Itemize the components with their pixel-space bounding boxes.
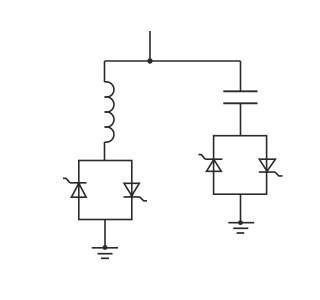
diode D1 cathode bar [70, 182, 87, 184]
diode D4 bar tail [275, 172, 283, 176]
capacitor C1 bottom plate [223, 102, 257, 104]
diode D3 cathode bar [205, 158, 222, 160]
wire capacitor to box [240, 103, 242, 135]
wire right drop [240, 61, 242, 91]
ground left [92, 248, 118, 258]
wire box to ground right [240, 194, 242, 223]
diode D1 bar tail [63, 178, 70, 183]
diode D2 triangle [124, 183, 139, 195]
node dot at left ground [103, 245, 108, 250]
node dot at right ground [238, 220, 243, 225]
wire left drop [104, 61, 106, 82]
diode D2 bar tail [140, 197, 147, 201]
inductor L1 [105, 82, 114, 142]
ground right [228, 223, 254, 233]
node junction dot [147, 58, 152, 63]
wire inductor to box [104, 142, 106, 161]
wire box to ground left [104, 220, 106, 248]
diode D4 cathode bar [259, 171, 275, 173]
diode D2 cathode bar [124, 196, 140, 198]
wire top stub [149, 31, 151, 61]
box right (component outline) [214, 136, 267, 195]
capacitor C1 top plate [223, 90, 257, 92]
wire horizontal bus [105, 60, 241, 62]
diode D4 triangle [259, 159, 275, 171]
diode D3 bar tail [199, 155, 206, 160]
diode D3 triangle [207, 159, 222, 171]
box left (component outline) [79, 161, 132, 220]
diode D1 triangle [71, 183, 86, 197]
